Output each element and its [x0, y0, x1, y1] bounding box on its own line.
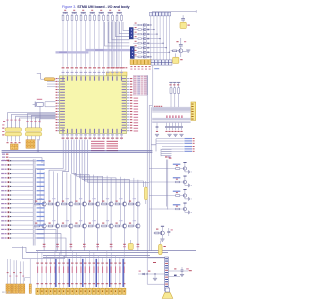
- LCD pad 19: [114, 288, 117, 294]
- LCD pad 11: [79, 288, 82, 294]
- capacitor C5 row: [177, 123, 180, 132]
- diode D5 key matrix: [146, 42, 149, 44]
- wire keypad column 5: [118, 21, 120, 67]
- LCD pad 9: [71, 288, 74, 294]
- net name row 7: [37, 186, 45, 187]
- transistor Q col5 row2: [96, 224, 100, 228]
- bus group bar 6: [122, 259, 123, 287]
- net name row 8: [37, 190, 45, 191]
- wire keyboard bus column 1: [150, 16, 152, 60]
- signal row 7 label: [1, 186, 6, 187]
- diode D1 key matrix: [146, 24, 149, 26]
- net name row 1: [37, 160, 45, 161]
- component row on bus right-2: [166, 115, 182, 118]
- net name row 9: [37, 194, 45, 195]
- net label right group2 row 3: [162, 151, 195, 152]
- signal row 13 label: [1, 212, 6, 213]
- wire LCD pin 10: [76, 252, 78, 287]
- crystal X1: [33, 99, 56, 107]
- solder bridge row 6: [8, 181, 12, 183]
- transistor Q right cell 2: [183, 176, 188, 186]
- resistor R right cell 3: [168, 192, 183, 196]
- net name row 12: [37, 207, 45, 208]
- net name row 16: [37, 225, 45, 226]
- wire matrix row 5 to bus: [149, 43, 164, 44]
- connector J_bot pad 6: [148, 60, 151, 65]
- solder bridge row 11: [8, 203, 12, 205]
- net label dashes right of MCU: [134, 98, 139, 132]
- signal row 1 label: [1, 160, 6, 161]
- transistor Q right cell 3: [183, 189, 188, 199]
- wire LCD pin 7: [63, 256, 65, 288]
- connector J_top pin 1: [150, 12, 153, 16]
- wire emitter col3: [70, 206, 72, 224]
- resistor R base col6 row2: [102, 220, 109, 227]
- transistor Q col3 row2: [69, 224, 73, 228]
- wire JB1 pin 2 down: [11, 136, 13, 143]
- wire row 11: [11, 203, 33, 205]
- connector J_bot pad 4: [141, 60, 144, 65]
- signal row 4 label: [1, 173, 6, 174]
- wires RN3 up: [7, 259, 11, 284]
- wire emitter col6: [110, 206, 112, 224]
- pin number labels keypad columns: [108, 67, 127, 68]
- wire pull-up 9 to MCU: [98, 21, 100, 67]
- wire row 4: [11, 173, 33, 175]
- transistor Q8 driver circuit: [176, 38, 186, 53]
- resistor R base col3 row2: [62, 220, 69, 227]
- wire fan to column 7: [79, 178, 116, 203]
- resistor R base col6 row1: [102, 198, 109, 205]
- wire row 17: [11, 228, 33, 230]
- wire column to bus col6: [110, 228, 113, 251]
- transistor Q col8 row2: [136, 224, 140, 228]
- wire collector rail col2: [57, 173, 59, 202]
- connector J_top pin 7: [168, 12, 171, 16]
- wire JB1 pin 3 up: [15, 116, 56, 128]
- connector J_key box 3: [158, 60, 161, 65]
- resistor R base col3 row1: [62, 198, 69, 205]
- LCD pad 16: [101, 288, 104, 294]
- resistor R2 pull-up: [67, 14, 69, 21]
- wire feed right cell 1: [149, 168, 168, 170]
- stamp marks bottom left: [2, 292, 10, 293]
- resistor R11 pull-up: [107, 10, 111, 21]
- wire feed right cell 2: [149, 181, 168, 183]
- wire row 8: [11, 190, 33, 192]
- resistor R5 pull-up: [80, 10, 84, 21]
- ground Q20: [160, 235, 164, 241]
- wire fan to column 1: [36, 169, 64, 204]
- wire fan to column 5: [74, 175, 89, 203]
- resistor R base col7 row2: [115, 220, 122, 227]
- connector J_bot pad 2: [134, 60, 137, 65]
- VCC rail bar 4: [90, 12, 95, 13]
- wire feed right cell 3: [149, 195, 168, 197]
- label marks left of JB1: [2, 121, 5, 135]
- diode D8 key matrix: [146, 56, 149, 58]
- transistor Q7 key matrix: [133, 50, 146, 54]
- pin label LCD 2: [41, 263, 43, 285]
- wire row 19: [11, 237, 33, 239]
- bus group bar 4: [96, 259, 97, 287]
- test point TP1 wire: [182, 15, 184, 18]
- wire matrix feed 3: [112, 22, 129, 40]
- signal row 2 label: [1, 164, 6, 165]
- wire JB1 pin 3 down: [15, 136, 17, 143]
- wire MCU bottom bundle 6: [76, 140, 78, 177]
- solder bridge row 19: [8, 237, 12, 239]
- net name row 6: [37, 182, 45, 183]
- resistor R10 pull-up: [103, 14, 105, 21]
- net name row 17: [37, 229, 45, 230]
- signal row 6 label: [1, 182, 6, 183]
- net name row 5: [37, 177, 45, 178]
- wire column rail B col8: [133, 178, 135, 225]
- resistor strip RN6: [25, 259, 32, 293]
- diode D2 key matrix: [146, 29, 149, 31]
- pin label LCD 19: [114, 263, 116, 285]
- wire row 6: [11, 181, 33, 183]
- LCD pad 5: [53, 288, 56, 294]
- wire MCU bottom bundle 1: [62, 140, 64, 169]
- solder bridge row 1: [8, 160, 12, 162]
- solder bridge row 2: [8, 164, 12, 166]
- pin label LCD 5: [54, 263, 56, 285]
- pin label LCD 17: [106, 263, 108, 285]
- wire keypad column 3: [113, 21, 115, 67]
- transistor Q col2 row2: [55, 224, 59, 228]
- resistor R4 pull-up: [76, 14, 78, 21]
- pin label LCD 4: [49, 263, 51, 285]
- wire pull-up 4 to MCU: [76, 21, 78, 67]
- wire MCU bottom bundle 7: [78, 140, 80, 178]
- capacitor C_x left: [156, 123, 159, 132]
- bus bottom line 2: [26, 251, 168, 253]
- wire pull-up 14 to MCU: [121, 21, 123, 67]
- wire keypad column 1: [108, 21, 110, 67]
- wire keyboard bus column 7: [168, 16, 170, 60]
- pin label LCD 3: [45, 263, 47, 285]
- capacitor C4 row: [174, 123, 177, 132]
- net label right group1 row 1: [156, 138, 195, 139]
- wire fan to column 8: [82, 179, 129, 203]
- transistor Q right cell 1: [183, 162, 188, 172]
- capacitor C_r1: [180, 267, 184, 277]
- signal row 19 label: [1, 237, 6, 238]
- speaker SPK body: [162, 288, 173, 298]
- resistor R right cell 1: [168, 165, 183, 169]
- VCC rail bar 5: [99, 12, 104, 13]
- wire Q8 emitter: [180, 53, 182, 57]
- net name row 15: [37, 220, 45, 221]
- wire JB2 pin 2 up: [31, 115, 56, 128]
- wire row 3: [11, 168, 33, 170]
- ground caps row: [167, 134, 183, 136]
- wire row 15: [11, 220, 33, 222]
- pin number labels J_bot: [130, 66, 150, 69]
- transistor Q col8 row1: [136, 202, 140, 206]
- net label right group2 row 2: [162, 148, 195, 149]
- LCD pad 13: [88, 288, 91, 294]
- transistor Q1 key matrix: [133, 23, 146, 27]
- LCD pad 1: [36, 288, 39, 294]
- wire right cell feed pair: [165, 156, 171, 209]
- pin label LCD 15: [97, 263, 99, 285]
- VCC rail bar 3: [81, 12, 86, 13]
- wire list tail 2: [35, 234, 61, 255]
- connector J_key box 4: [162, 60, 165, 65]
- ground right cell 3: [188, 197, 191, 201]
- resistor network RN1 grid: [26, 139, 39, 152]
- wire emitter col8: [137, 206, 139, 224]
- wire X1 to JB2: [39, 106, 41, 122]
- wire emitter col1: [43, 206, 45, 224]
- MCU U1 bottom pin strip: [62, 134, 123, 140]
- resistor R3 pull-up: [71, 10, 75, 21]
- LCD pad 7: [62, 288, 65, 294]
- resistor R14 pull-up: [121, 14, 123, 21]
- solder bridge row 17: [8, 229, 12, 231]
- wire MCU bottom bundle 2: [65, 140, 67, 171]
- resistor R1 pull-up: [62, 10, 66, 21]
- wire LCD pin 9: [71, 251, 73, 288]
- solder bridge row 10: [8, 198, 12, 200]
- wire keyboard bus column 2: [153, 16, 155, 60]
- wire keyboard bus column 5: [162, 16, 164, 60]
- solder bridge row 15: [8, 220, 12, 222]
- pin label LCD 7: [62, 263, 64, 285]
- wire pull-up 1 to MCU: [62, 21, 64, 67]
- transistor Q4 key matrix: [133, 36, 146, 40]
- VCC rail bar 2: [72, 12, 77, 13]
- wire pull-up 6 to MCU: [85, 21, 87, 67]
- wire keyboard bus column 4: [159, 16, 161, 60]
- solder bridge row 13: [8, 211, 12, 213]
- connector J_top pin 4: [159, 12, 162, 16]
- pin label LCD 8: [67, 263, 69, 285]
- wire list tail 3: [35, 238, 66, 257]
- wire JB1 pin 2 up: [11, 114, 56, 127]
- MCU U1 right pin names: [122, 78, 126, 131]
- VCC rail bar 1: [63, 12, 68, 13]
- connector J_key box 6: [169, 60, 172, 65]
- wire LCD pin 6: [58, 252, 60, 287]
- net label right cell 4: [173, 204, 181, 205]
- bus bottom line 1: [36, 250, 196, 252]
- wire JB1 pin 1 down: [7, 136, 9, 143]
- wire collector rail col5: [97, 176, 99, 202]
- wire column rail B col5: [93, 175, 95, 226]
- wire J_key to bus right: [153, 65, 159, 107]
- wire pull-up 10 to MCU: [103, 21, 105, 67]
- VCC rail bar 7: [117, 12, 122, 13]
- wire emitter col2: [57, 206, 59, 224]
- net label right group1 row 3: [156, 143, 195, 144]
- wire row 7: [11, 185, 33, 187]
- wire JB2 pins down: [28, 136, 40, 141]
- wire column rail B col6: [106, 176, 108, 225]
- capacitor C6 row: [180, 123, 183, 132]
- wire collector rail col3: [70, 174, 72, 202]
- wire row 10: [11, 198, 33, 200]
- wire row 18: [11, 233, 33, 235]
- resistor R8 pull-up: [94, 14, 96, 21]
- net name list below MCU: [91, 141, 118, 151]
- wire collector rail col7: [124, 179, 126, 202]
- wire fan to column 4: [71, 173, 76, 203]
- capacitor C1 row: [165, 123, 168, 132]
- connector J_key box 1: [151, 60, 154, 65]
- wire row 16: [11, 224, 33, 226]
- wire pull-up 8 to MCU: [94, 21, 96, 67]
- wire collector rail col6: [110, 178, 112, 202]
- net name row 18: [37, 233, 45, 234]
- wire column rail B col7: [120, 177, 122, 225]
- net name row 13: [37, 212, 45, 213]
- VCC rail bar 6: [108, 12, 113, 13]
- net name row 10: [37, 199, 45, 200]
- wire JB1 pin 4 up: [19, 118, 56, 128]
- resistor grid RN2 labels: [133, 75, 147, 95]
- resistor R21 vertical pull-up: [173, 82, 176, 107]
- wire fan to column 3: [62, 172, 68, 203]
- transistor Q8 key matrix: [133, 54, 146, 58]
- diode D3 key matrix: [146, 33, 149, 35]
- wire LCD pin 3: [45, 256, 47, 288]
- wire collector rail col8: [137, 180, 139, 202]
- buzzer BZ2 body: [173, 53, 179, 63]
- LCD pad 18: [110, 288, 113, 294]
- net name row 3: [37, 169, 45, 170]
- buzzer BZ1 body: [180, 22, 186, 28]
- transistor Q6 key matrix: [133, 45, 146, 49]
- net label right cell 1: [173, 164, 181, 165]
- transistor Q col6 row2: [109, 224, 113, 228]
- wire LCD pin 12: [84, 257, 86, 287]
- solder bridge row 9: [8, 194, 12, 196]
- jumper block JB2 bars: [25, 128, 42, 136]
- resistor R right cell 4: [168, 206, 183, 210]
- label rows below rail: [2, 154, 8, 161]
- wire matrix row 2 to bus: [149, 29, 155, 30]
- wire MCU bottom bundle 4: [70, 140, 72, 174]
- resistor R6 pull-up: [85, 14, 87, 21]
- wire row 9: [11, 194, 33, 196]
- net label band PD bus: [56, 49, 132, 54]
- resistor R13 pull-up: [116, 10, 120, 21]
- net label right group2 row 1: [162, 146, 195, 147]
- wire matrix row 3 to bus: [149, 33, 158, 34]
- wire MCU bottom bundle 10: [87, 140, 89, 183]
- signal row 12 label: [1, 207, 6, 208]
- net name row 4: [37, 173, 45, 174]
- wire column rail B col1: [39, 170, 41, 225]
- wire matrix feed 4: [116, 22, 130, 37]
- pin label LCD 20: [119, 263, 121, 285]
- LCD pad 4: [49, 288, 52, 294]
- label right parts: [153, 262, 192, 271]
- bus right-1: [152, 107, 190, 112]
- solder bridge row 4: [8, 173, 12, 175]
- solder bridge row 18: [8, 233, 12, 235]
- wire matrix row 7 to bus: [149, 52, 170, 53]
- resistor R base col8 row2: [129, 220, 136, 227]
- wire LCD pin 11: [80, 256, 82, 288]
- LCD pad 12: [84, 288, 87, 294]
- transistor Q20 bottom: [154, 226, 165, 235]
- diode D7 key matrix: [146, 51, 149, 53]
- capacitor C_lcd yellow box: [128, 240, 133, 250]
- bus group bar 5: [109, 259, 110, 287]
- MCU U1 left pin strip: [56, 78, 60, 131]
- wire column to bus col8: [137, 228, 140, 251]
- ground Q8: [182, 50, 190, 52]
- resistor R base col4 row1: [75, 198, 82, 205]
- wire LCD pin 16: [102, 257, 104, 287]
- transistor Q col4 row2: [82, 224, 86, 228]
- resistor R base col1 row1: [35, 198, 42, 205]
- transistor Q3 key matrix: [133, 32, 146, 36]
- wire fan to column 2: [49, 170, 66, 203]
- ground right cell 4: [188, 211, 191, 215]
- resistor network RN4 grid: [12, 284, 18, 293]
- net label right group1 row 2: [156, 140, 195, 141]
- wire matrix row 1 to bus: [149, 24, 152, 25]
- MCU U1 left pin names: [60, 78, 65, 131]
- wire LCD pin 21: [123, 251, 125, 288]
- wire keypad column 4: [116, 21, 118, 67]
- wire pull-up 13 to MCU: [116, 21, 118, 67]
- resistor network RN5 grid: [19, 284, 25, 293]
- wire column rail B col3: [66, 172, 68, 225]
- pin label LCD 1: [36, 263, 38, 285]
- resistor R base col1 row2: [35, 220, 42, 227]
- wire fan to column 6: [77, 176, 103, 203]
- wire emitter col5: [97, 206, 99, 224]
- wire matrix chain vertical: [143, 23, 146, 58]
- wire label rows to bus: [9, 158, 44, 166]
- pin label LCD 18: [110, 263, 112, 285]
- wire LCD pin 2: [41, 252, 43, 287]
- signal row 3 label: [1, 169, 6, 170]
- jumper block JB1 bars: [5, 128, 22, 136]
- resistor R base col4 row2: [75, 220, 82, 227]
- wire MCU bottom bundle 5: [73, 140, 75, 175]
- pin label LCD 12: [84, 263, 86, 285]
- resistor R base col8 row1: [129, 198, 136, 205]
- wire emitter col7: [124, 206, 126, 224]
- net label right cell 3: [173, 191, 181, 192]
- pin label LCD 14: [93, 263, 95, 285]
- net label text marks: [59, 49, 104, 52]
- wires RN4 up: [13, 260, 17, 284]
- MCU U1 top pin strip: [62, 67, 123, 76]
- net name row 11: [37, 203, 45, 204]
- pin label LCD 9: [71, 263, 73, 285]
- wire matrix row 6 to bus: [149, 47, 167, 48]
- diode D_r1: [174, 268, 189, 276]
- wire column to bus col3: [70, 228, 73, 251]
- resistor R base col5 row2: [88, 220, 95, 227]
- solder bridge row 16: [8, 224, 12, 226]
- wire column to bus col5: [96, 228, 99, 251]
- net name row 19: [37, 237, 45, 238]
- ground C_x: [155, 134, 159, 136]
- pin label LCD 11: [80, 263, 82, 285]
- transistor Q col5 row1: [96, 202, 100, 206]
- wire LCD pin 4: [50, 257, 52, 287]
